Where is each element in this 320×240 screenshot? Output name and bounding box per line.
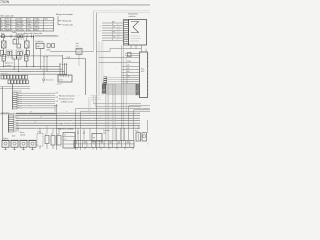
svg-text:G/Y: G/Y — [40, 117, 42, 119]
svg-text:O2: O2 — [45, 134, 47, 136]
svg-text:CTION: CTION — [0, 0, 10, 4]
svg-text:+: + — [39, 27, 40, 29]
svg-text:Wiring color example: Wiring color example — [56, 14, 73, 16]
svg-text:Y/B: Y/B — [60, 124, 62, 126]
svg-text:Knk: Knk — [51, 134, 54, 136]
svg-text:1.25B: 1.25B — [127, 61, 131, 63]
svg-text:B: B — [112, 24, 113, 26]
svg-text:Fusible link: Fusible link — [36, 41, 44, 43]
svg-text:Eng: Eng — [141, 69, 144, 71]
svg-text:Fuel pump: Fuel pump — [103, 130, 110, 132]
svg-text:F.P: F.P — [93, 138, 95, 140]
svg-text:Y: Y — [127, 80, 128, 82]
svg-text:Idle-up: Idle-up — [20, 132, 24, 134]
svg-text:+: + — [39, 21, 40, 23]
svg-text:Lg: Lg — [22, 24, 24, 26]
svg-text:Fusible: Fusible — [12, 32, 17, 34]
svg-text:B: B — [127, 82, 128, 84]
svg-text:Relay: Relay — [135, 131, 139, 133]
svg-text:sen: sen — [64, 139, 66, 141]
svg-text:Black: Black — [6, 21, 10, 23]
svg-text:R/B: R/B — [34, 29, 37, 31]
svg-text:Veh spd: Veh spd — [14, 128, 19, 130]
svg-text:Wire color code: Wire color code — [1, 15, 14, 18]
svg-text:W/B: W/B — [56, 101, 59, 103]
svg-text:G: G — [127, 74, 128, 76]
svg-text:E: E — [148, 144, 149, 146]
svg-text:W/B: W/B — [56, 93, 59, 95]
svg-text:B: B — [1, 21, 2, 23]
svg-text:+: + — [39, 19, 40, 21]
svg-text:G: G — [100, 117, 101, 119]
svg-text:W/B: W/B — [56, 105, 59, 107]
svg-text:B/Y: B/Y — [34, 24, 36, 26]
svg-text:Terminal code: Terminal code — [63, 24, 74, 27]
svg-text:Pink: Pink — [17, 29, 20, 31]
svg-text:L/R: L/R — [127, 68, 129, 70]
svg-text:Gy: Gy — [22, 29, 24, 31]
svg-text:G/R: G/R — [127, 76, 129, 78]
svg-text:L: L — [55, 18, 56, 20]
svg-text:Spd: Spd — [57, 134, 60, 136]
svg-text:1.25B: 1.25B — [66, 57, 70, 59]
svg-text:P: P — [11, 29, 12, 31]
svg-text:Fuse: Fuse — [1, 33, 4, 35]
svg-text:ECU: ECU — [141, 71, 144, 73]
svg-text:Wiring code: Wiring code — [63, 20, 72, 23]
svg-text:SkyBl: SkyBl — [6, 29, 11, 31]
svg-text:R: R — [100, 26, 101, 28]
svg-text:Y: Y — [11, 27, 12, 29]
svg-text:Blue: Blue — [17, 24, 20, 26]
svg-text:relay: relay — [103, 132, 106, 134]
svg-text:Check conn: Check conn — [46, 80, 54, 82]
svg-text:Code: Code — [34, 19, 38, 21]
svg-text:Sb: Sb — [1, 29, 3, 31]
svg-text:controller: controller — [129, 15, 136, 18]
svg-text:Red: Red — [6, 27, 9, 29]
svg-text:Cd: Cd — [13, 57, 15, 59]
svg-text:S: S — [30, 105, 31, 107]
svg-text:L/R: L/R — [34, 122, 36, 124]
